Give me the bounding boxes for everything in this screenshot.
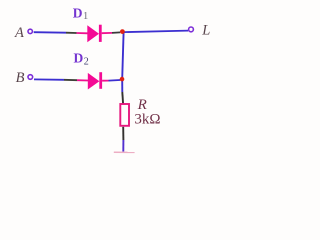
svg-text:D: D xyxy=(74,51,84,66)
wire A dark segment 2 xyxy=(112,31,120,34)
diode D2 xyxy=(88,73,100,90)
svg-text:R: R xyxy=(137,97,147,113)
svg-text:D: D xyxy=(73,6,83,21)
wire D1 anode lead magenta xyxy=(77,32,88,34)
svg-text:1: 1 xyxy=(83,11,88,22)
diode D1 cathode bar xyxy=(99,25,102,42)
terminal A circle xyxy=(28,29,32,33)
wire dark segment below resistor xyxy=(122,127,124,140)
wire dark segment above resistor xyxy=(121,92,124,104)
junction node bottom xyxy=(120,77,125,82)
wire D2 anode lead magenta xyxy=(77,79,88,81)
svg-text:B: B xyxy=(16,70,25,86)
svg-text:2: 2 xyxy=(84,56,89,67)
wire B dark segment xyxy=(64,79,77,81)
svg-text:L: L xyxy=(201,23,210,39)
resistor R body xyxy=(120,104,129,126)
wire D2 cathode lead magenta xyxy=(102,80,108,82)
wire A dark segment xyxy=(66,32,77,34)
ground xyxy=(114,151,135,153)
diode D2 cathode bar xyxy=(99,72,102,89)
wire A blue segment xyxy=(34,31,66,34)
terminal B circle xyxy=(28,75,33,80)
wire D1 cathode lead magenta xyxy=(102,32,112,34)
svg-text:A: A xyxy=(14,25,24,41)
svg-text:3kΩ: 3kΩ xyxy=(134,112,160,128)
wire vertical top junction to bottom junction blue xyxy=(122,32,123,79)
wire B blue segment xyxy=(34,78,64,80)
wire blue segment to ground xyxy=(122,140,124,152)
wire D2 to junction blue xyxy=(109,79,121,82)
diode D1 xyxy=(87,25,99,42)
wire junction to L blue xyxy=(125,31,189,32)
terminal L circle xyxy=(189,27,194,32)
junction node top xyxy=(120,29,125,34)
wire bottom junction down blue xyxy=(121,79,123,92)
